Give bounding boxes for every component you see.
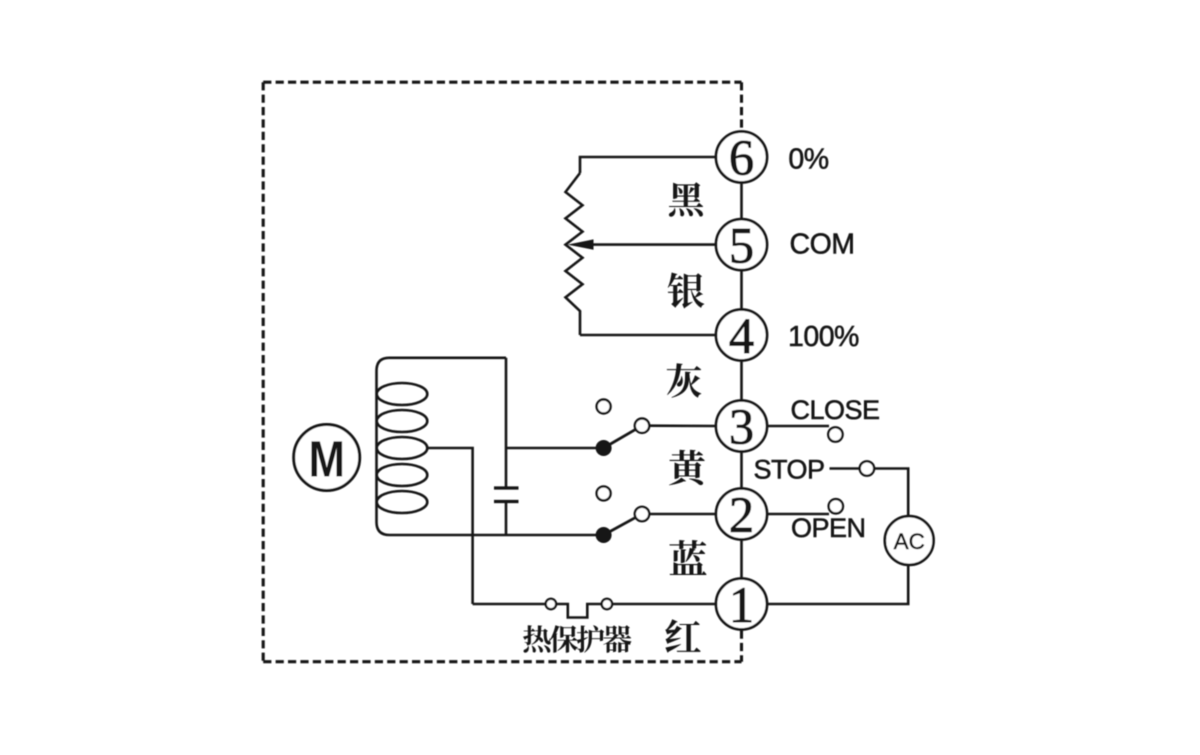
svg-text:STOP: STOP <box>754 455 825 485</box>
svg-text:OPEN: OPEN <box>791 513 866 543</box>
svg-text:100%: 100% <box>788 321 859 353</box>
svg-text:AC: AC <box>894 529 925 554</box>
svg-text:2: 2 <box>729 487 754 543</box>
svg-text:1: 1 <box>729 577 754 633</box>
svg-text:COM: COM <box>790 228 855 260</box>
svg-text:M: M <box>308 431 345 488</box>
svg-text:6: 6 <box>729 130 754 186</box>
svg-text:3: 3 <box>729 399 754 455</box>
svg-text:0%: 0% <box>788 143 828 175</box>
svg-text:5: 5 <box>729 218 754 274</box>
svg-text:CLOSE: CLOSE <box>791 395 880 425</box>
svg-text:4: 4 <box>729 308 754 364</box>
